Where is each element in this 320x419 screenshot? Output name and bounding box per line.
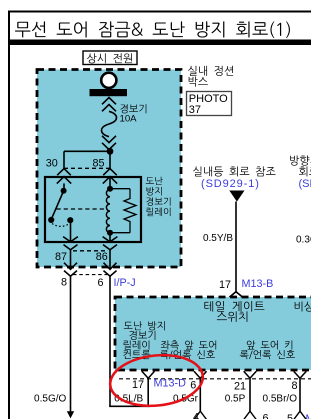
connector pin 6 (I/P-J): [97, 277, 103, 289]
junction node (fuse output): [107, 148, 114, 155]
svg-text:M13-B: M13-B: [242, 278, 274, 290]
PHOTO 37 box: [187, 92, 232, 117]
wire 0.5P from M13-D 21: [244, 378, 257, 419]
svg-text:86: 86: [96, 251, 108, 263]
svg-text:(SD929-1): (SD929-1): [201, 178, 260, 190]
svg-text:17: 17: [132, 379, 144, 391]
svg-text:0.5G/O: 0.5G/O: [34, 393, 66, 404]
relay internal resistor: [110, 189, 136, 233]
power terminal symbol (circle + bus bar): [90, 73, 128, 96]
relay U: 도난 방지 경보기 릴레이 box: [45, 177, 141, 242]
fuse name label: 경보기: [120, 104, 146, 113]
wire label 0.5L/B: [114, 393, 143, 404]
svg-text:PHOTO: PHOTO: [189, 93, 228, 105]
pin 85: [92, 157, 117, 183]
connector pin 17 (M13-B): [219, 279, 231, 291]
annotation: red ellipse highlighting M13-D: [108, 351, 206, 410]
wire label 0.5G/O: [34, 393, 66, 404]
svg-text:6: 6: [263, 413, 269, 419]
connector name M13-D: [154, 378, 187, 390]
label: 앞 도어 키 록/언록 신호: [240, 340, 295, 359]
relay coil (85-86): [106, 177, 113, 242]
wire 0.5Br/O from M13-D 8: [294, 378, 307, 419]
wire: fuse output to relay pins 30/85: [64, 150, 110, 169]
wire 0.5Gr from M13-D 6: [194, 378, 207, 419]
connector pin 8 (I/P-J): [61, 277, 67, 289]
connector pin 8 (M13-D): [291, 371, 306, 392]
wire label 0.5P: [225, 393, 246, 404]
bottom edge pin fragments 4 / 6 / 5 / M3: [193, 412, 320, 419]
wire label 0.3 (clipped): [296, 235, 318, 246]
connector I/P-J strip dashed line: [73, 274, 107, 276]
svg-text:0.5P: 0.5P: [225, 393, 246, 404]
wire: 0.5Y/B from reference to M13-B 17: [229, 202, 242, 298]
reference (clipped): 방향지시등 회로 참조 (SD...): [290, 155, 320, 189]
relay mechanical link (dashed): [57, 208, 108, 210]
svg-text:10A: 10A: [120, 114, 138, 125]
fuse value label: 10A: [120, 114, 138, 125]
relay name label: 도난/방지/경보기/릴레이: [146, 177, 171, 217]
svg-text:0.5Br/O: 0.5Br/O: [263, 393, 298, 404]
label: 도난 방지 경보기 릴레이 컨트롤: [123, 321, 164, 359]
wire label 0.5Gr: [173, 393, 199, 404]
connector name M13-B: [242, 278, 274, 290]
svg-text:8: 8: [291, 380, 297, 392]
wire: pin 87 down to connector I/P-J pin 8: [64, 250, 77, 276]
label (clipped): 비상등: [295, 301, 320, 311]
svg-text:21: 21: [234, 380, 246, 392]
wire: pin 86 down to connector I/P-J pin 6: [104, 250, 117, 276]
connector name I/P-J: [114, 277, 136, 289]
dashed box: 테일 게이트 스위치 zone: [115, 297, 320, 370]
svg-text:4: 4: [193, 412, 199, 419]
svg-text:M13-D: M13-D: [154, 378, 187, 390]
pin 30: [46, 157, 71, 183]
title: 무선 도어 잠금&amp; 도난 방지 회로(1): [15, 21, 290, 38]
pin 86: [96, 237, 118, 263]
svg-text:37: 37: [189, 104, 201, 116]
reference: 실내등 회로 참조 (SD929-1): [193, 166, 275, 176]
relay connector dashed line (87-86): [73, 250, 107, 252]
svg-text:M3: M3: [306, 413, 312, 419]
svg-text:0.3G: 0.3G: [296, 235, 311, 246]
relay switch contact (30-87): [48, 183, 73, 241]
connector pin 17 (M13-D): [132, 371, 155, 391]
reference source triangle: [229, 191, 244, 202]
svg-text:85: 85: [92, 157, 104, 169]
svg-text:17: 17: [219, 279, 231, 291]
svg-text:87: 87: [55, 251, 67, 263]
connector M13-D strip dashed line: [119, 378, 311, 380]
label: 테일 게이트 스위치: [204, 301, 264, 322]
fuse F: 경보기 10A: [102, 98, 117, 150]
wire 0.5G/O: I/P-J 8 down off page: [67, 276, 74, 418]
svg-text:5: 5: [287, 413, 293, 419]
svg-text:8: 8: [61, 277, 67, 289]
svg-text:I/P-J: I/P-J: [114, 277, 136, 289]
wire label 0.5Br/O: [263, 393, 298, 404]
relay connector dashed line (30-85): [64, 167, 110, 169]
svg-text:30: 30: [46, 157, 58, 169]
pin 87: [55, 237, 78, 263]
dashed box: anti-theft relay zone: [37, 70, 181, 268]
svg-text:6: 6: [97, 277, 103, 289]
wire 0.5L/B: I/P-J 6 to M13-D 17: [109, 276, 149, 406]
svg-text:(SD9: (SD9: [299, 178, 312, 190]
wire label 0.5Y/B: [203, 233, 233, 244]
label: 좌측 앞 도어 록/언록 신호: [160, 340, 216, 359]
label: 실내 정션 박스 (indoor junction box): [188, 66, 233, 87]
svg-text:0.5Y/B: 0.5Y/B: [203, 233, 233, 244]
connector pin 6 (M13-D): [190, 371, 206, 391]
label: 상시 전원 (constant power): [83, 51, 137, 65]
title underline bar: [8, 40, 311, 46]
connector pin 21 (M13-D): [234, 371, 256, 392]
